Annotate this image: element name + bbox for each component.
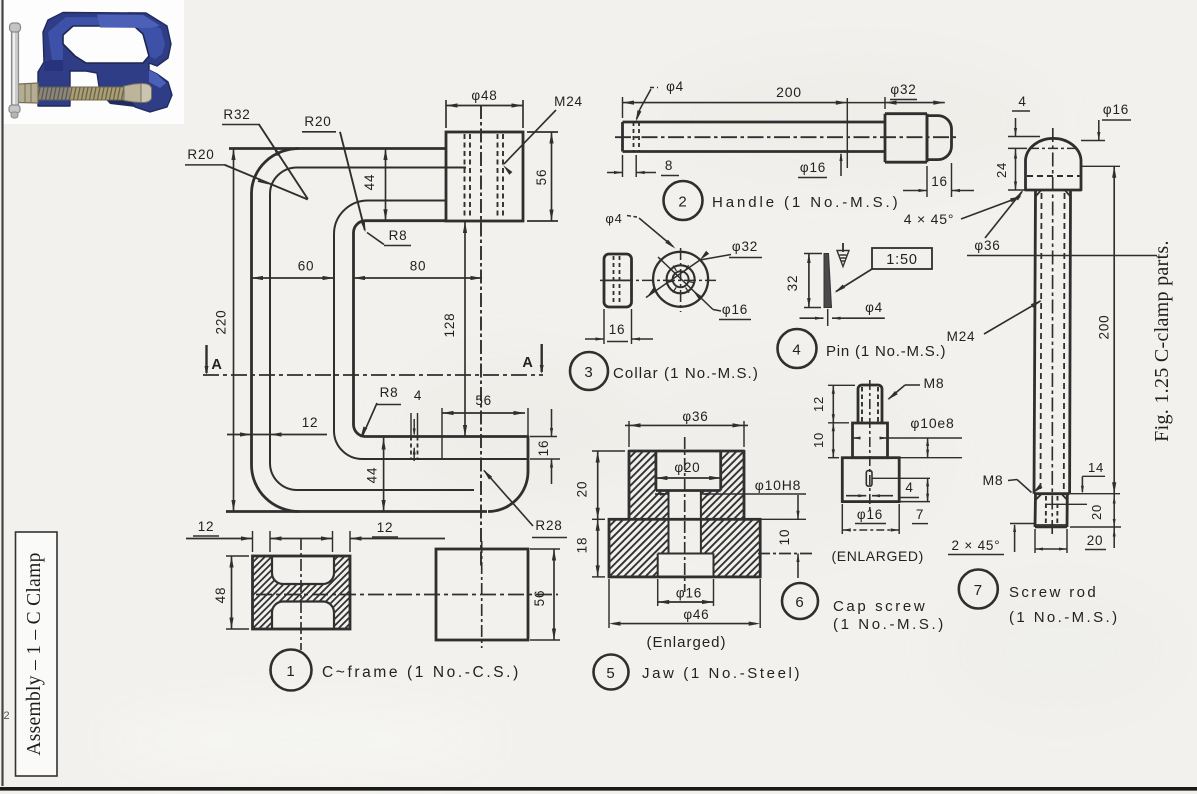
svg-text:Assembly – 1 – C Clamp: Assembly – 1 – C Clamp [24,552,45,755]
svg-text:12: 12 [377,520,394,535]
dimension 16 step height [530,436,557,438]
section A-A bottom notch [272,602,334,630]
svg-text:48: 48 [213,587,228,604]
svg-text:R32: R32 [223,107,250,122]
svg-text:R28: R28 [535,518,562,533]
svg-text:44: 44 [362,174,377,191]
dimension 128 [464,222,466,437]
part 1 boss cylinder phi48 at top right [446,132,523,221]
svg-text:Handle (1 No.-M.S.): Handle (1 No.-M.S.) [712,194,900,211]
svg-text:60: 60 [298,259,315,274]
dimension 12 flange [227,434,327,436]
svg-text:14: 14 [1088,460,1104,475]
part 6 cap screw M8 stud [858,385,882,423]
svg-text:φ4: φ4 [865,300,883,315]
dimension 220 overall height [233,149,235,512]
svg-text:2 × 45°: 2 × 45° [952,538,1001,553]
label 2 x 45 chamfer [1010,523,1036,525]
svg-text:20: 20 [575,481,590,498]
part 7 balloon and title [959,570,998,609]
svg-text:7: 7 [916,507,924,522]
part 7 ball head internal lines [1029,147,1078,149]
part 3 collar side view [604,254,632,307]
dimension phi20 jaw [656,477,721,479]
svg-text:(ENLARGED): (ENLARGED) [832,548,924,564]
dimension phi10H8 jaw [655,493,669,495]
part 6 cap screw middle cylinder phi10e8 [853,423,888,458]
svg-text:φ16: φ16 [1103,102,1129,117]
svg-text:16: 16 [931,174,948,189]
svg-text:φ16: φ16 [857,507,883,522]
svg-text:(1 No.-M.S.): (1 No.-M.S.) [833,616,946,633]
svg-text:16: 16 [609,322,626,337]
svg-text:φ10H8: φ10H8 [755,477,802,493]
svg-text:80: 80 [410,259,427,274]
svg-text:1:50: 1:50 [886,252,917,268]
part 5 jaw phi16 recess [657,554,659,577]
part 1 M24 threaded hole dashed lines in boss [464,134,466,219]
clamp screw thread [17,87,125,100]
svg-text:R20: R20 [304,114,331,129]
svg-text:φ46: φ46 [683,607,709,622]
dimension phi16 ball flat [1081,140,1105,142]
svg-text:7: 7 [974,582,983,599]
svg-text:M8: M8 [982,472,1003,488]
part 6 centerline [869,380,871,511]
svg-text:128: 128 [442,313,457,338]
dimension phi46 jaw [608,579,610,628]
svg-text:3: 3 [584,364,593,381]
part 5 jaw phi20 recess [655,451,658,491]
clamp T-handle bar [12,29,19,107]
dimension 200 rod [1081,165,1120,167]
part 2 handle rod outline [623,121,886,124]
dimension 44 top limb [385,149,387,221]
svg-text:φ4: φ4 [605,211,622,226]
svg-text:Jaw (1 No.-Steel): Jaw (1 No.-Steel) [642,665,802,682]
part 1 C-frame front view - outer profile [229,147,446,150]
part 1 seat pin hole phi4 dashed [410,437,412,460]
dimension 16 collar length [603,309,605,344]
svg-text:M24: M24 [554,94,583,109]
svg-text:Collar (1 No.-M.S.): Collar (1 No.-M.S.) [613,365,759,382]
dimension 80 [354,277,483,279]
svg-text:R8: R8 [389,228,408,243]
svg-text:8: 8 [665,158,673,173]
dimension 48 section height [226,555,249,557]
svg-text:10: 10 [777,529,792,546]
svg-text:M8: M8 [923,375,944,391]
part 1 C-frame web fillet line outer side [270,168,474,491]
part 1 C-frame bottom limb nose R28 [488,472,528,512]
part 2 handle head phi32 [884,114,887,163]
part 1 C-frame opening inner edge with R8 fillets and jaw seat [354,221,529,472]
part 7 hole depth line [1046,503,1087,505]
dimension phi36 jaw [628,421,630,447]
dimension 8 hole position [622,155,624,177]
svg-text:10: 10 [811,432,826,448]
svg-text:4: 4 [905,480,913,495]
clamp screw tip and swivel pad [124,84,141,103]
part 7 M8 hole dashed [1045,496,1047,524]
part 3 collar front view circles [653,252,708,307]
dimension 24 ball head [1015,148,1017,190]
dimension phi16 cap screw [841,504,843,534]
svg-text:200: 200 [776,84,802,100]
svg-text:2: 2 [678,194,687,211]
part 4 taper 1:50 box with leader [872,248,932,269]
part 4 pin tapered body [824,254,832,308]
dimension phi10e8 [853,437,861,439]
part 1 side view of bottom limb end [436,549,528,640]
dimension 200 handle length [622,97,624,118]
svg-text:16: 16 [536,440,551,457]
svg-text:R8: R8 [380,385,399,400]
part 6 cap screw lower cylinder phi16 [842,458,899,502]
svg-text:Pin (1 No.-M.S.): Pin (1 No.-M.S.) [826,343,946,360]
svg-text:4 × 45°: 4 × 45° [904,211,955,227]
part 3 balloon and title [570,352,608,390]
dimensions 12 12 over section view [252,531,254,552]
clamp handle top knob [10,23,21,32]
dimension 12 cap screw [828,384,855,386]
part 1 balloon and title [271,650,312,691]
svg-text:φ16: φ16 [676,586,702,601]
svg-text:φ32: φ32 [890,82,916,97]
part 7 screw rod ball head [1026,138,1082,190]
dimension 56 side view [530,548,560,550]
svg-text:12: 12 [811,396,826,412]
assembly title box [16,532,58,776]
svg-text:φ48: φ48 [471,88,497,103]
dimension 20 jaw upper [592,450,625,452]
svg-text:φ36: φ36 [974,238,1000,253]
svg-text:4: 4 [414,388,422,403]
dimension 4 ball top [1008,136,1040,138]
page left border line [1,0,3,786]
dimension 44 bottom limb [383,437,385,512]
svg-text:A: A [522,355,533,371]
svg-text:56: 56 [475,393,492,408]
svg-text:M24: M24 [947,329,976,344]
page bottom border line [0,787,1197,791]
dimension tip width [1034,529,1036,553]
part 7 rod bottom shoulder [1034,492,1070,495]
dimension 20 tip upper [1070,493,1120,495]
svg-text:φ20: φ20 [674,460,700,475]
svg-text:Fig. 1.25 C-clamp parts.: Fig. 1.25 C-clamp parts. [1151,240,1173,442]
part 7 rod body M24 [1034,190,1036,494]
part 7 rod centerline [1051,128,1054,535]
svg-text:φ32: φ32 [732,239,758,254]
svg-text:56: 56 [532,590,547,607]
part 1 screw axis centerline [480,105,482,568]
dimension phi32 head [884,97,886,109]
dimension phi4 pin [827,309,829,326]
part 5 balloon and title [594,655,629,690]
part 5 jaw lower block outline [609,519,760,577]
part 7 tip chamfer lines [1036,494,1042,500]
svg-text:4: 4 [792,342,801,359]
svg-text:200: 200 [1097,315,1112,340]
svg-text:(1 No.-M.S.): (1 No.-M.S.) [1009,609,1119,626]
clamp handle bottom cap [9,105,20,113]
part 6 balloon and title [782,583,818,619]
label phi16 collar [713,310,721,312]
part 3 collar hub radial ticks [667,265,695,293]
svg-text:2: 2 [4,710,11,722]
svg-text:(Enlarged): (Enlarged) [646,634,726,651]
part 6 cap screw pin slot phi4 [866,471,872,487]
part 4 taper symbol [842,243,844,252]
svg-text:R20: R20 [187,147,214,162]
photo of blue C-clamp top left - white backdrop [3,0,184,124]
section line A-A [203,374,543,376]
part 5 jaw centerline [684,437,686,592]
dimension 4 seat pin hole [410,413,412,436]
dimension 10 jaw right [760,518,806,520]
part 7 thread core dashed lines [1041,193,1042,491]
svg-text:56: 56 [534,169,549,186]
svg-text:6: 6 [795,594,804,611]
svg-text:24: 24 [994,162,1009,178]
svg-text:φ36: φ36 [682,409,708,424]
dimension 7 cap screw [872,477,930,479]
svg-text:4: 4 [1018,94,1026,109]
dimension 56 step [441,408,443,458]
svg-text:18: 18 [575,537,590,554]
part 4 balloon and title [778,329,817,368]
part 5 jaw phi10 hole [668,491,670,554]
svg-text:φ16: φ16 [722,302,748,317]
part 7 M8 tip block [1034,494,1037,527]
svg-text:12: 12 [198,519,215,534]
svg-text:φ16: φ16 [800,160,826,175]
dimension phi48 on boss [445,100,447,128]
section A-A top notch [272,556,334,584]
dimension 32 pin length [804,253,822,255]
part 2 balloon and title [664,181,703,220]
part 7 rod chamfer at top [1036,190,1042,196]
svg-text:12: 12 [302,415,319,430]
dimension 10 cap screw [828,457,839,459]
svg-text:44: 44 [365,467,380,484]
svg-text:20: 20 [1087,533,1104,548]
svg-text:Cap screw: Cap screw [833,598,927,615]
label phi32 collar [700,255,731,261]
part 3 collar hole dashed lines [613,256,615,305]
dimension 16 knob [926,166,928,197]
svg-text:1: 1 [286,663,295,680]
svg-text:220: 220 [214,310,229,335]
part 3 collar centerlines [600,279,716,281]
dimension phi16 jaw bottom [657,579,659,606]
dimension 18 jaw lower [592,576,605,578]
dimension 60 [252,277,335,279]
dimension 4 cap screw pin hole [846,495,866,497]
dimension 56 boss height [527,131,558,133]
svg-text:5: 5 [606,665,615,682]
part 2 handle end knob [927,116,952,160]
svg-text:φ4: φ4 [666,79,684,94]
svg-text:φ10e8: φ10e8 [910,415,954,431]
svg-text:32: 32 [785,275,800,292]
part 5 jaw upper block outline [629,451,744,519]
section view centerlines [300,538,302,650]
svg-text:C~frame (1 No.-C.S.): C~frame (1 No.-C.S.) [322,664,521,681]
part 2 handle centerline [615,136,956,138]
clamp screw collar where it passes the boss [38,85,70,102]
svg-text:A: A [211,357,222,373]
svg-text:20: 20 [1089,504,1104,520]
svg-text:Screw rod: Screw rod [1009,584,1098,601]
part 1 C-frame web fillet line inner side / step top line [334,201,528,460]
clamp body blue G frame [38,13,172,113]
collar diagonal leaders with arrows [646,260,700,298]
dimension 20 tip lower [1070,526,1121,528]
part 1 section A-A view outline [253,556,351,629]
clamp handle ferrule [17,83,38,103]
part 2 cross hole phi4 dashed [633,122,635,152]
